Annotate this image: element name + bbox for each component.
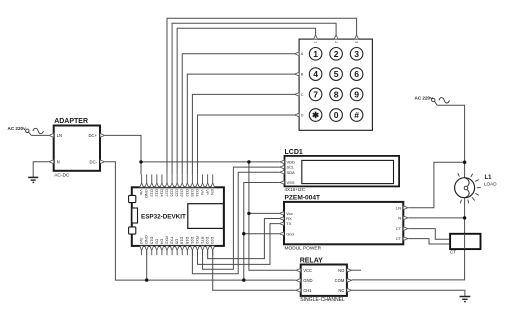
- ESP32 top pin VP: [205, 174, 210, 195]
- wire D26 to keypad col2: [172, 23, 336, 174]
- svg-text:3v3: 3v3: [139, 238, 144, 245]
- wire D35 to keypad row C: [192, 94, 294, 174]
- svg-text:COM: COM: [335, 278, 345, 283]
- svg-text:AC 220v: AC 220v: [8, 126, 27, 131]
- PZEM-004T power module: [284, 194, 403, 251]
- svg-text:AC 220v: AC 220v: [415, 95, 434, 100]
- PZEM pin CT right: [396, 236, 408, 241]
- svg-text:D22: D22: [205, 237, 210, 245]
- junction 5V branch: [247, 160, 250, 163]
- PZEM pin LN right: [396, 205, 408, 210]
- svg-text:Gnd: Gnd: [286, 231, 294, 236]
- wire PZEM N to lamp wire: [408, 217, 464, 219]
- keypad button 9: [350, 88, 363, 101]
- wire RX1 to PZEM TX: [197, 224, 279, 265]
- svg-text:3: 3: [354, 49, 359, 59]
- svg-text:D23: D23: [210, 237, 215, 245]
- ESP32 top pin D35: [190, 174, 195, 197]
- svg-text:TX: TX: [286, 221, 291, 226]
- svg-text:ESP32-DEVKIT: ESP32-DEVKIT: [141, 214, 186, 221]
- ESP32 bottom pin GND: [144, 235, 149, 255]
- keypad column pin 2: [334, 35, 338, 44]
- wire 5V to PZEM Vcc: [249, 212, 279, 214]
- svg-text:LN: LN: [57, 133, 62, 138]
- LCD pin VSS: [280, 180, 295, 185]
- keypad button 8: [330, 88, 343, 101]
- wire D34 to keypad row D: [197, 115, 294, 174]
- svg-text:D2: D2: [154, 239, 159, 245]
- svg-text:SDA: SDA: [287, 170, 296, 175]
- svg-text:D32: D32: [185, 189, 190, 197]
- ESP32 bottom pin D21: [190, 237, 195, 256]
- relay single-channel: [300, 258, 347, 304]
- wire lamp node to PZEM LN: [408, 162, 464, 208]
- ESP32 top pin D26: [170, 174, 175, 197]
- svg-text:D34: D34: [195, 189, 200, 197]
- svg-text:3: 3: [354, 41, 358, 43]
- ESP32 top pin D32: [185, 174, 190, 197]
- svg-text:L1: L1: [485, 175, 493, 181]
- wire RT1 to LCD SCL: [203, 167, 280, 269]
- wire GND to PZEM Gnd: [244, 233, 279, 235]
- svg-text:VCC: VCC: [303, 268, 312, 273]
- svg-text:4X16+I2C: 4X16+I2C: [285, 187, 306, 192]
- ESP32 top pin D25: [175, 174, 180, 197]
- svg-text:RT1: RT1: [200, 237, 205, 245]
- svg-text:#: #: [354, 110, 359, 120]
- svg-text:5: 5: [334, 69, 339, 79]
- svg-text:0: 0: [334, 110, 339, 120]
- wire GND riser to LCD VSS: [244, 183, 280, 281]
- svg-text:✱: ✱: [312, 110, 320, 120]
- PZEM pin Vcc: [279, 211, 292, 216]
- svg-text:LOAD: LOAD: [484, 181, 497, 186]
- keypad button 6: [350, 68, 363, 81]
- ESP32 bottom pin D23: [210, 237, 215, 256]
- svg-text:RX2: RX2: [165, 236, 170, 245]
- ESP32 bottom pin RT1: [200, 237, 205, 256]
- svg-text:D5: D5: [175, 239, 180, 245]
- LCD1 display module: [285, 149, 400, 192]
- svg-text:NC: NC: [338, 288, 344, 293]
- wire D32 to keypad row B: [187, 74, 294, 174]
- svg-text:C: C: [301, 93, 304, 97]
- wire adapter N to ground: [33, 162, 49, 177]
- svg-text:CT: CT: [450, 250, 456, 255]
- svg-text:D13: D13: [149, 189, 154, 197]
- LCD pin SDA: [280, 170, 295, 175]
- wire 5V riser to relay VCC: [249, 162, 296, 270]
- svg-text:CT: CT: [396, 226, 402, 231]
- ESP32 top pin VN: [200, 174, 205, 195]
- svg-text:GND: GND: [303, 278, 312, 283]
- ESP32-DEVKIT module: [129, 187, 224, 246]
- svg-text:D25: D25: [175, 189, 180, 197]
- svg-text:N: N: [398, 216, 401, 221]
- wire D25 to keypad col1: [177, 28, 315, 174]
- svg-text:ADAPTER: ADAPTER: [54, 118, 88, 125]
- PZEM pin Gnd: [279, 231, 293, 236]
- wire adapter DC- ground rail to relay GND: [105, 162, 296, 280]
- ESP32 bottom pin D15: [149, 237, 154, 256]
- keypad button 3: [350, 48, 363, 61]
- svg-text:8: 8: [334, 89, 339, 99]
- ESP32 top pin EN: [210, 174, 215, 195]
- svg-text:VN: VN: [200, 189, 205, 195]
- ESP32 top pin GND: [144, 174, 149, 198]
- svg-text:RX1: RX1: [195, 236, 200, 245]
- svg-text:RELAY: RELAY: [300, 258, 323, 265]
- ESP32 bottom pin RX1: [195, 236, 200, 255]
- svg-text:CT: CT: [396, 236, 402, 241]
- junction GND rail riser: [242, 278, 245, 281]
- svg-text:1: 1: [313, 49, 318, 59]
- svg-text:1: 1: [313, 41, 317, 43]
- PZEM pin TX: [279, 221, 291, 226]
- svg-text:6: 6: [354, 69, 359, 79]
- ESP32 top pin Vin: [139, 174, 144, 195]
- svg-text:2: 2: [334, 49, 339, 59]
- svg-text:D: D: [301, 113, 304, 117]
- keypad row pin B: [295, 72, 304, 76]
- svg-text:DC-: DC-: [90, 160, 98, 165]
- wire D33 to keypad row A: [182, 54, 294, 175]
- wire D27 to keypad col3: [167, 18, 357, 174]
- ESP32 bottom pin D22: [205, 237, 210, 256]
- keypad button ✱: [309, 109, 322, 122]
- svg-text:D14: D14: [159, 189, 164, 197]
- svg-text:VSS: VSS: [287, 180, 295, 185]
- keypad row pin C: [295, 93, 304, 97]
- svg-text:D4: D4: [159, 239, 164, 245]
- svg-text:SINGLE-CHANNEL: SINGLE-CHANNEL: [300, 297, 345, 303]
- keypad button #: [350, 109, 363, 122]
- svg-text:EN: EN: [210, 189, 215, 195]
- relay pin VCC: [296, 268, 312, 273]
- keypad button 1: [309, 48, 322, 61]
- ESP32 bottom pin TX2: [170, 237, 175, 256]
- ESP32 bottom pin D19: [185, 237, 190, 256]
- junction 5V at PZEM Vcc: [247, 212, 250, 215]
- keypad button 4: [309, 68, 322, 81]
- PZEM pin RX: [279, 216, 292, 221]
- svg-text:D33: D33: [180, 189, 185, 197]
- svg-text:7: 7: [313, 89, 318, 99]
- junction AC lamp node: [463, 161, 466, 164]
- PZEM pin N right: [398, 216, 408, 221]
- CT current transformer: [450, 234, 481, 255]
- ground right: [460, 297, 471, 302]
- svg-text:4: 4: [313, 69, 318, 79]
- wire D21 to LCD SDA: [192, 172, 279, 274]
- ESP32 bottom pin RX2: [165, 236, 170, 255]
- keypad button 0: [330, 109, 343, 122]
- keypad 4x3: [299, 39, 372, 130]
- svg-text:LCD1: LCD1: [285, 149, 303, 156]
- ESP32 top pin D14: [159, 174, 164, 197]
- svg-text:NO: NO: [338, 268, 345, 273]
- svg-text:LN: LN: [396, 205, 401, 210]
- svg-text:D27: D27: [165, 189, 170, 197]
- svg-text:D19: D19: [185, 237, 190, 245]
- wire D22 to PZEM RX: [208, 219, 279, 259]
- keypad button 2: [330, 48, 343, 61]
- svg-text:MODUL POWER: MODUL POWER: [285, 246, 322, 252]
- svg-text:CH1: CH1: [303, 288, 312, 293]
- svg-text:D26: D26: [170, 189, 175, 197]
- wire relay NO stub: [352, 269, 362, 271]
- svg-text:D35: D35: [190, 189, 195, 197]
- relay pin NC right: [338, 288, 351, 293]
- junction GND rail at ESP32: [145, 278, 148, 281]
- ESP32 top pin D34: [195, 174, 200, 197]
- wire AC-L to adapter LN: [31, 134, 49, 136]
- svg-text:D18: D18: [180, 237, 185, 245]
- svg-text:GND: GND: [144, 235, 149, 244]
- svg-text:GND: GND: [144, 189, 149, 198]
- wire 5V branch to LCD VDD: [141, 161, 280, 163]
- relay pin NO right: [338, 268, 351, 273]
- svg-text:9: 9: [354, 89, 359, 99]
- wire GND rail to ESP32 GND pin: [146, 251, 148, 281]
- ESP32 top pin D13: [149, 174, 154, 197]
- svg-text:PZEM-004T: PZEM-004T: [285, 194, 321, 201]
- svg-text:Vin: Vin: [139, 189, 144, 195]
- lamp L1 LOAD: [455, 173, 498, 203]
- PZEM pin CT right: [396, 226, 408, 231]
- ESP32 top pin D12: [154, 174, 159, 197]
- junction GND at PZEM Gnd: [242, 232, 245, 235]
- svg-text:N: N: [57, 160, 60, 165]
- svg-text:D15: D15: [149, 237, 154, 245]
- ESP32 bottom pin 3v3: [139, 238, 144, 256]
- keypad column pin 1: [313, 35, 317, 44]
- ESP32 bottom pin D4: [159, 239, 164, 255]
- relay pin CH1: [296, 288, 312, 293]
- svg-text:AC-DC: AC-DC: [54, 173, 70, 179]
- keypad button 5: [330, 68, 343, 81]
- relay pin COM right: [335, 278, 352, 283]
- AC source left: AC 220v: [8, 126, 44, 135]
- svg-text:DC+: DC+: [89, 133, 98, 138]
- AC source right: AC 220v: [415, 95, 450, 105]
- wire AC-R to lamp top: [437, 105, 464, 177]
- svg-text:VP: VP: [205, 189, 210, 195]
- ground left: [28, 177, 38, 182]
- wire D23 to relay CH1: [213, 251, 296, 291]
- svg-text:D21: D21: [190, 237, 195, 245]
- relay pin GND: [296, 278, 312, 283]
- keypad row pin A: [295, 52, 304, 56]
- LCD pin SCL: [280, 165, 295, 170]
- ESP32 bottom pin D2: [154, 239, 159, 255]
- wire PZEM CT2 to CT: [408, 239, 449, 244]
- ESP32 bottom pin D18: [180, 237, 185, 256]
- junction N node: [463, 216, 466, 219]
- ESP32 bottom pin D5: [175, 239, 180, 255]
- wire adapter DC+ to ESP32 Vin: [105, 135, 141, 174]
- wire relay NC to ground: [352, 290, 465, 296]
- svg-text:2: 2: [334, 41, 338, 43]
- adapter (AC-DC): [49, 118, 105, 179]
- junction 5V at Vin riser: [139, 160, 142, 163]
- ESP32 top pin D27: [165, 174, 170, 197]
- wire lamp to relay COM: [352, 198, 465, 280]
- LCD pin VDD: [280, 160, 295, 165]
- svg-text:TX2: TX2: [170, 237, 175, 245]
- keypad column pin 3: [354, 35, 358, 44]
- ESP32 top pin D33: [180, 174, 185, 197]
- keypad row pin D: [295, 113, 304, 117]
- keypad button 7: [309, 88, 322, 101]
- svg-text:D12: D12: [154, 189, 159, 197]
- wire wire through CT: [464, 234, 466, 249]
- wire PZEM CT1 to CT: [408, 229, 449, 240]
